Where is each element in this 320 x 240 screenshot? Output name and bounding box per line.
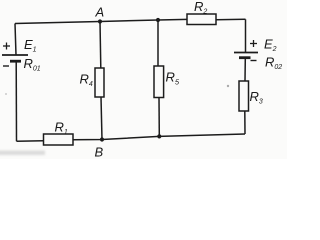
- svg-text:A: A: [95, 5, 105, 20]
- svg-text:R1: R1: [55, 120, 68, 137]
- svg-text:R01: R01: [24, 56, 41, 73]
- svg-text:E1: E1: [24, 37, 37, 54]
- svg-text:R3: R3: [250, 89, 263, 106]
- svg-text:R02: R02: [265, 55, 282, 72]
- svg-text:R4: R4: [80, 72, 93, 89]
- svg-text:E2: E2: [264, 37, 277, 54]
- svg-text:R2: R2: [194, 0, 207, 15]
- svg-text:B: B: [95, 145, 104, 160]
- svg-text:R5: R5: [166, 70, 180, 87]
